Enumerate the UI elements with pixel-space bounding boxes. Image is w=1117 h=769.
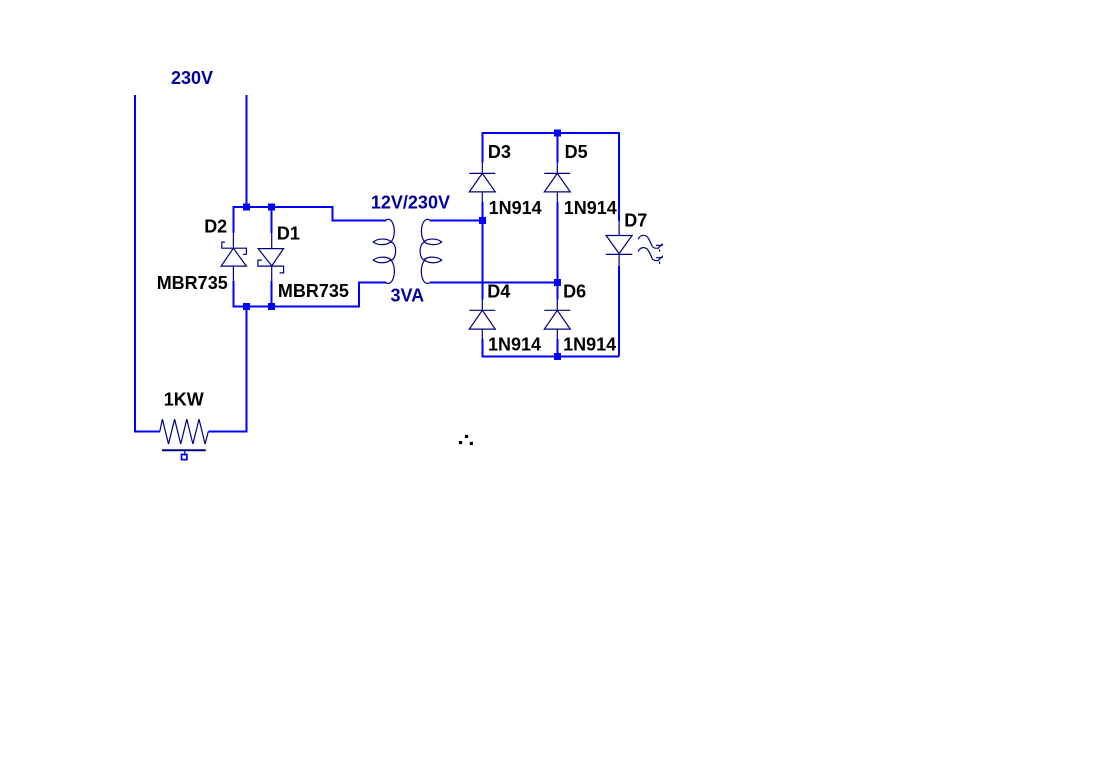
LED D7 (pointing down) xyxy=(606,221,632,266)
svg-text:D4: D4 xyxy=(487,281,510,301)
node bottom rail D1 junction xyxy=(268,303,275,310)
resistor underline bar xyxy=(162,449,206,451)
wire resistor right leg xyxy=(208,307,246,432)
wire D4 column bottom xyxy=(481,339,483,357)
diode D5 (pointing up) xyxy=(544,162,570,202)
svg-text:3VA: 3VA xyxy=(391,285,425,305)
node bottom rail left junction xyxy=(243,303,250,310)
therefore dots xyxy=(459,435,473,445)
svg-text:12V/230V: 12V/230V xyxy=(371,192,450,212)
LED D7 light ray 1 xyxy=(638,235,662,251)
svg-text:MBR735: MBR735 xyxy=(278,281,349,301)
svg-text:D2: D2 xyxy=(204,217,227,237)
svg-text:D6: D6 xyxy=(563,281,586,301)
wire D1 column top stub xyxy=(271,206,273,233)
diode D3 (pointing up) xyxy=(469,162,495,202)
wire bridge bottom rail xyxy=(482,356,619,358)
node top rail D1 junction xyxy=(268,204,275,211)
resistor tick to square xyxy=(184,450,186,455)
wire top rail D2/D1 to transformer primary top xyxy=(233,207,385,220)
wire left mains vertical + bottom run to resistor xyxy=(135,95,160,432)
wire bottom rail D2/D1 to transformer primary bottom xyxy=(233,282,385,306)
svg-text:1N914: 1N914 xyxy=(488,335,541,355)
wire D5 column top xyxy=(556,133,558,163)
node top rail left junction xyxy=(243,204,250,211)
wire D3-D4 column middle xyxy=(481,202,483,299)
wire D1 column bottom stub xyxy=(271,281,273,308)
wire D3 column top xyxy=(481,133,483,163)
svg-text:D7: D7 xyxy=(624,211,647,231)
transformer T1 left winding xyxy=(374,219,396,283)
wire transformer secondary top to bridge xyxy=(430,219,482,221)
LED D7 light ray 2 xyxy=(638,248,662,264)
wire bridge top rail xyxy=(482,133,619,134)
wire D2 column bottom stub xyxy=(232,281,234,308)
wire 230V feed vertical xyxy=(246,95,248,208)
transformer T1 right winding xyxy=(420,219,441,283)
svg-text:1N914: 1N914 xyxy=(563,335,616,355)
node secondary top at D3/D4 xyxy=(479,217,486,224)
wire D7 column bottom xyxy=(618,266,620,357)
wire D6 column bottom xyxy=(556,339,558,356)
svg-text:D1: D1 xyxy=(277,223,300,243)
wire transformer secondary bottom to D5/D6 node xyxy=(430,281,557,283)
diode D2 (schottky, pointing up) xyxy=(221,233,246,282)
svg-text:D5: D5 xyxy=(565,142,588,162)
svg-text:1N914: 1N914 xyxy=(489,198,542,218)
node bridge top rail at D5 xyxy=(554,130,561,137)
wire D7 column top xyxy=(618,133,620,221)
svg-text:1N914: 1N914 xyxy=(564,198,617,218)
node secondary bottom at D5/D6 xyxy=(554,279,561,286)
diode D6 (pointing up) xyxy=(544,299,570,339)
svg-text:D3: D3 xyxy=(488,142,511,162)
wire D2 column top stub xyxy=(232,206,234,233)
resistor terminal square xyxy=(182,454,187,459)
wire D5-D6 column middle xyxy=(556,202,558,299)
svg-text:1KW: 1KW xyxy=(164,390,204,410)
svg-text:230V: 230V xyxy=(171,68,213,88)
diode D4 (pointing up) xyxy=(469,299,495,339)
diode D1 (schottky, pointing down) xyxy=(258,233,284,282)
svg-text:MBR735: MBR735 xyxy=(157,273,228,293)
resistor 1KW zigzag xyxy=(160,419,209,444)
node bridge bottom rail at D6 xyxy=(554,353,561,360)
transformer petal tip dots xyxy=(373,241,442,261)
